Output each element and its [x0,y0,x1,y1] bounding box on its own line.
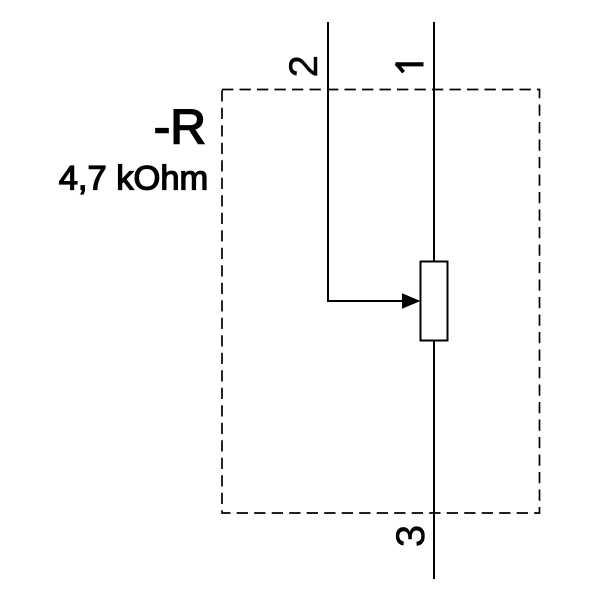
svg-text:3: 3 [389,525,433,547]
wiper arrow [402,293,421,308]
svg-text:2: 2 [282,55,326,77]
wire pin 3 [433,341,435,580]
svg-text:-R: -R [154,99,206,154]
pin label 1 [396,63,424,72]
component boundary dashed box [222,90,540,514]
wire pin 2 (vertical then horizontal to wiper) [328,22,403,301]
wire pin 1 [433,22,435,262]
potentiometer body [421,262,448,341]
svg-text:4,7 kOhm: 4,7 kOhm [59,160,209,198]
